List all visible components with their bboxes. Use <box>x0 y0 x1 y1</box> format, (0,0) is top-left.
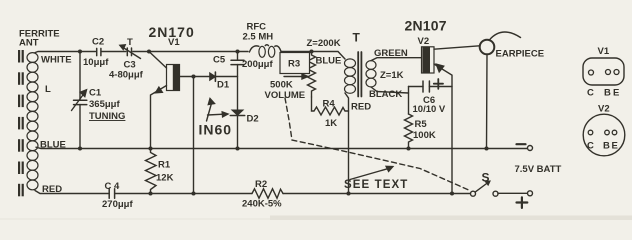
wire transformer primary bottom / R4 to bottom rail <box>345 93 349 194</box>
diode D1 IN60 <box>210 72 238 91</box>
svg-text:V2: V2 <box>418 36 430 47</box>
wire bottom rail <box>35 191 471 194</box>
svg-text:C1: C1 <box>89 88 102 99</box>
svg-text:D2: D2 <box>247 114 259 125</box>
svg-text:V1: V1 <box>598 46 610 57</box>
svg-text:10/10 V: 10/10 V <box>413 104 446 115</box>
svg-text:R5: R5 <box>415 119 428 130</box>
svg-text:100K: 100K <box>413 130 436 141</box>
svg-text:7.5V BATT: 7.5V BATT <box>515 164 562 175</box>
wire mid rail (negative) <box>36 147 529 148</box>
svg-text:BLUE: BLUE <box>40 140 66 151</box>
transformer T primary <box>345 59 356 93</box>
svg-text:R2: R2 <box>255 179 267 190</box>
svg-text:C: C <box>587 141 594 152</box>
wire V1 base to bottom rail <box>193 77 195 194</box>
switch S <box>471 171 499 197</box>
resistor R1 <box>146 146 174 195</box>
battery negative terminal <box>515 144 562 175</box>
resistor R2 <box>242 179 283 210</box>
capacitor C6 electrolytic <box>409 79 453 115</box>
transformer T secondary <box>366 61 376 87</box>
wire top rail <box>35 52 345 60</box>
svg-text:D1: D1 <box>217 80 230 91</box>
antenna coil L <box>27 53 38 190</box>
variable capacitor C1 TUNING <box>72 49 126 150</box>
V1 pinout <box>583 46 624 99</box>
svg-text:E: E <box>612 141 618 152</box>
resistor R4 1K <box>312 97 349 129</box>
svg-text:200μμf: 200μμf <box>242 59 273 70</box>
transistor V1 2N170 <box>147 49 210 148</box>
svg-text:ANT: ANT <box>19 38 39 49</box>
RF choke RFC 2.5MH <box>243 22 282 58</box>
capacitor C5 <box>213 49 273 110</box>
wire secondary top (GREEN) to V2 base <box>371 58 422 61</box>
dashed gang line R3 to S <box>285 98 471 191</box>
transistor V2 2N107 <box>422 46 480 194</box>
svg-text:4-80μμf: 4-80μμf <box>109 70 144 81</box>
diode D2 IN60 <box>230 110 258 150</box>
scan shadow bottom edge <box>270 216 632 221</box>
svg-text:2N107: 2N107 <box>405 18 447 34</box>
svg-text:E: E <box>613 88 619 99</box>
node V1-base line / bottom rail junction <box>191 191 195 195</box>
resistor R5 100K <box>405 114 436 151</box>
svg-text:Z=1K: Z=1K <box>380 70 404 81</box>
SEE TEXT callout <box>344 166 408 191</box>
svg-text:TUNING: TUNING <box>89 111 125 122</box>
capacitor C4 <box>102 181 133 210</box>
svg-text:EARPIECE: EARPIECE <box>496 49 545 60</box>
emitter lead with arrow <box>151 86 167 149</box>
transformer core <box>358 52 361 97</box>
svg-text:BLUE: BLUE <box>316 56 342 67</box>
svg-text:C 4: C 4 <box>105 181 121 192</box>
IN60 label with arrows <box>199 99 233 138</box>
potentiometer R3 500K VOLUME <box>265 49 316 101</box>
svg-text:V2: V2 <box>598 104 610 115</box>
ferrite core <box>18 50 24 196</box>
capacitor C2 <box>83 37 109 69</box>
svg-text:365μμf: 365μμf <box>89 99 120 110</box>
svg-text:10μμf: 10μμf <box>83 57 109 68</box>
svg-text:L: L <box>45 84 51 95</box>
svg-text:GREEN: GREEN <box>374 48 408 59</box>
trimmer capacitor C3 (T) <box>109 37 144 81</box>
svg-text:V1: V1 <box>168 37 180 48</box>
svg-text:RED: RED <box>351 102 371 113</box>
svg-text:240K-5%: 240K-5% <box>242 199 282 210</box>
svg-text:500K: 500K <box>270 80 293 91</box>
collector lead <box>434 46 480 49</box>
collector lead <box>149 52 167 69</box>
svg-text:B: B <box>603 141 610 152</box>
battery positive terminal <box>498 191 533 208</box>
svg-text:1K: 1K <box>325 118 337 129</box>
svg-text:270μμf: 270μμf <box>102 199 133 210</box>
emitter lead with arrow (PNP) <box>434 64 452 194</box>
svg-text:R3: R3 <box>288 59 300 70</box>
svg-text:SEE TEXT: SEE TEXT <box>344 179 408 191</box>
svg-text:C5: C5 <box>213 55 226 66</box>
svg-text:RED: RED <box>42 184 62 195</box>
svg-text:R1: R1 <box>158 160 171 171</box>
earpiece <box>480 32 544 151</box>
svg-text:BLACK: BLACK <box>369 89 402 100</box>
wire secondary bottom (BLACK) to R5 top <box>371 87 409 93</box>
svg-text:12K: 12K <box>156 173 174 184</box>
svg-text:IN60: IN60 <box>199 122 233 138</box>
svg-text:T: T <box>127 37 133 48</box>
svg-text:T: T <box>353 31 361 45</box>
svg-text:2.5 MH: 2.5 MH <box>243 32 274 43</box>
svg-text:C: C <box>587 88 594 99</box>
base lead <box>180 76 210 78</box>
svg-text:Z=200K: Z=200K <box>307 38 341 49</box>
svg-text:C2: C2 <box>92 37 104 48</box>
svg-text:S: S <box>482 171 490 185</box>
svg-text:R4: R4 <box>323 99 336 110</box>
V2 pinout <box>583 104 625 156</box>
svg-text:B: B <box>604 88 611 99</box>
svg-text:WHITE: WHITE <box>41 55 72 66</box>
